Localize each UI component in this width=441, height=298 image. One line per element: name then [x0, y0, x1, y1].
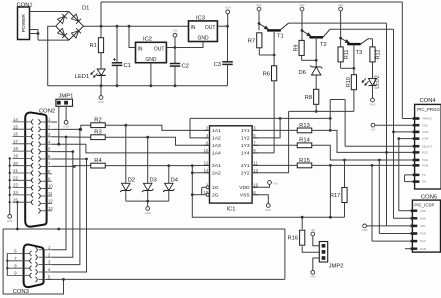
svg-text:R2: R2 [94, 118, 101, 124]
svg-text:1Y4: 1Y4 [241, 151, 250, 157]
svg-text:LOW: LOW [422, 130, 429, 134]
svg-text:12: 12 [48, 199, 53, 204]
svg-text:T2: T2 [320, 42, 327, 48]
svg-text:VPP: VPP [420, 224, 426, 228]
svg-text:GND: GND [265, 208, 271, 212]
svg-text:GND: GND [197, 36, 209, 42]
svg-text:1A3: 1A3 [212, 143, 221, 149]
svg-text:+5V: +5V [371, 127, 376, 131]
svg-text:12: 12 [204, 161, 209, 166]
svg-text:13: 13 [48, 206, 53, 211]
svg-text:1A4: 1A4 [212, 151, 221, 157]
svg-text:JMP2: JMP2 [329, 264, 344, 270]
svg-text:GND: GND [98, 100, 104, 104]
svg-text:R4: R4 [94, 158, 102, 164]
svg-text:16: 16 [253, 183, 258, 188]
svg-text:PIC_PROG: PIC_PROG [417, 107, 440, 112]
svg-text:19: 19 [13, 154, 18, 159]
svg-text:2A1: 2A1 [212, 163, 221, 169]
svg-text:16: 16 [13, 132, 18, 137]
svg-text:1A1: 1A1 [212, 128, 221, 134]
svg-text:1G: 1G [212, 185, 219, 191]
svg-text:VDD: VDD [422, 123, 428, 127]
svg-text:R10: R10 [346, 77, 352, 87]
svg-text:D3: D3 [150, 178, 157, 184]
svg-text:PIC_ICSP: PIC_ICSP [414, 203, 434, 208]
svg-text:CON4: CON4 [420, 98, 437, 104]
svg-text:1Y2: 1Y2 [241, 136, 250, 142]
svg-text:IC1: IC1 [226, 207, 235, 213]
svg-text:C1: C1 [123, 63, 130, 69]
svg-text:2Y2: 2Y2 [241, 171, 250, 177]
svg-text:LED2: LED2 [375, 75, 381, 89]
svg-text:R1: R1 [89, 43, 96, 49]
svg-text:C2: C2 [181, 64, 188, 70]
svg-text:IC2: IC2 [143, 37, 152, 43]
svg-text:PGC: PGC [420, 239, 426, 243]
svg-text:PGD: PGD [420, 232, 426, 236]
svg-text:R6: R6 [263, 71, 270, 77]
svg-text:10: 10 [48, 184, 53, 189]
svg-text:R14: R14 [299, 138, 310, 144]
svg-text:D2: D2 [128, 178, 135, 184]
svg-text:VSS: VSS [240, 193, 251, 199]
svg-text:18: 18 [13, 146, 18, 151]
svg-text:GND: GND [362, 228, 368, 232]
svg-text:VDD: VDD [239, 185, 250, 191]
svg-text:VCC: VCC [338, 3, 344, 7]
svg-text:11: 11 [253, 161, 258, 166]
svg-text:LED1: LED1 [75, 74, 90, 80]
svg-text:2G: 2G [212, 193, 219, 199]
svg-text:R17: R17 [330, 193, 341, 199]
svg-text:17: 17 [13, 139, 18, 144]
svg-text:IN: IN [191, 25, 196, 31]
svg-text:TS: TS [422, 173, 426, 177]
svg-text:IC3: IC3 [196, 15, 205, 21]
svg-text:R3: R3 [94, 130, 101, 136]
svg-text:OUT: OUT [154, 46, 165, 52]
svg-text:2A2: 2A2 [212, 171, 221, 177]
svg-text:VDD: VDD [420, 209, 426, 213]
svg-text:IN: IN [138, 46, 143, 52]
svg-text:14: 14 [13, 117, 18, 122]
svg-text:R7: R7 [248, 38, 255, 44]
svg-text:R8: R8 [305, 95, 312, 101]
svg-text:24: 24 [13, 190, 18, 195]
svg-text:D4: D4 [171, 178, 179, 184]
svg-text:23: 23 [13, 183, 18, 188]
svg-text:C3: C3 [214, 62, 221, 68]
svg-text:T1: T1 [277, 34, 284, 40]
svg-text:VCC: VCC [299, 3, 305, 7]
svg-text:GND: GND [310, 275, 316, 279]
svg-text:D6: D6 [299, 70, 306, 76]
svg-text:GND: GND [420, 216, 426, 220]
svg-text:1Y1: 1Y1 [241, 128, 250, 134]
svg-text:GND: GND [145, 211, 151, 215]
svg-text:LOW: LOW [422, 137, 429, 141]
svg-text:2Y1: 2Y1 [241, 163, 250, 169]
svg-text:VCC: VCC [256, 3, 262, 7]
svg-text:+5V: +5V [273, 182, 278, 186]
svg-text:POWER: POWER [21, 14, 27, 33]
svg-text:14: 14 [204, 168, 209, 173]
svg-text:21: 21 [13, 168, 18, 173]
svg-text:D1: D1 [82, 6, 89, 12]
svg-text:13: 13 [253, 168, 258, 173]
svg-text:PGM: PGM [420, 247, 427, 251]
svg-text:PGD: PGD [422, 158, 428, 162]
svg-text:1A2: 1A2 [212, 136, 221, 142]
svg-text:SELECT: SELECT [422, 144, 433, 148]
svg-text:R11: R11 [344, 50, 350, 60]
svg-text:R9: R9 [294, 44, 300, 51]
svg-text:PGC: PGC [422, 151, 428, 155]
svg-text:+5V: +5V [173, 29, 178, 33]
svg-text:R13: R13 [299, 123, 310, 129]
svg-text:22: 22 [13, 175, 18, 180]
svg-text:OUT: OUT [205, 25, 216, 31]
svg-text:20: 20 [13, 161, 18, 166]
svg-text:+5V: +5V [310, 228, 315, 232]
svg-text:R15: R15 [299, 158, 310, 164]
svg-text:GND: GND [145, 57, 157, 63]
svg-text:DA: DA [422, 180, 426, 184]
svg-text:R12: R12 [376, 49, 382, 59]
svg-text:15: 15 [13, 124, 18, 129]
svg-text:GND: GND [63, 125, 69, 129]
svg-text:10: 10 [204, 148, 209, 153]
svg-text:+13V: +13V [225, 6, 231, 10]
svg-text:GND: GND [7, 219, 13, 223]
svg-text:R16: R16 [287, 236, 298, 242]
svg-text:T3: T3 [356, 50, 363, 56]
svg-text:GND: GND [370, 102, 376, 106]
svg-text:1Y3: 1Y3 [241, 143, 250, 149]
svg-text:VHHGG: VHHGG [422, 117, 432, 121]
svg-text:PGM: PGM [422, 164, 429, 168]
svg-text:11: 11 [48, 191, 53, 196]
